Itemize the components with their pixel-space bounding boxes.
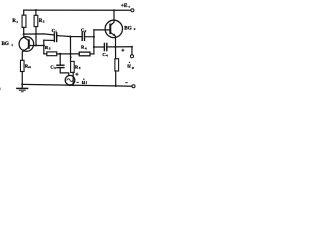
wire Rb bottom lead to base lead bbox=[35, 27, 37, 46]
wire emitter BG1 down bbox=[21, 52, 23, 60]
svg-text:+E: +E bbox=[121, 3, 128, 9]
capacitor C4 bbox=[104, 43, 106, 50]
node emitter-output bbox=[114, 46, 116, 48]
wire node B vertical to R5 bbox=[70, 37, 72, 62]
svg-text:2: 2 bbox=[85, 29, 87, 33]
wire base lead BG2 bbox=[94, 29, 110, 31]
circuit schematic 138x94 bbox=[0, 0, 138, 94]
source AC ui bbox=[65, 75, 75, 85]
emitter BG2 with arrow bbox=[110, 32, 115, 35]
wire C3 top lead bbox=[59, 54, 61, 65]
svg-text:BG: BG bbox=[2, 41, 9, 47]
node N1 bbox=[59, 53, 61, 55]
label ui source minus bbox=[76, 81, 78, 83]
svg-text:u: u bbox=[127, 63, 131, 70]
node cap C4 junction bbox=[93, 46, 95, 48]
svg-text:o: o bbox=[132, 65, 134, 70]
wire emitter BG2 down bbox=[115, 36, 117, 47]
wire Re1 bottom bbox=[21, 72, 23, 85]
node rail Rb bbox=[35, 9, 37, 11]
svg-text:1: 1 bbox=[16, 20, 18, 24]
wire node M vertical bbox=[93, 30, 95, 54]
wire top rail +Ec bbox=[24, 9, 131, 11]
wire Rb top lead bbox=[35, 10, 37, 15]
resistor Re2 bbox=[115, 59, 119, 71]
wire R1 bottom bbox=[23, 27, 25, 34]
transistor BG1 bbox=[19, 37, 34, 52]
wire C2 to node M bbox=[85, 36, 94, 38]
svg-text:4: 4 bbox=[85, 46, 87, 50]
wire R3 to R4 bbox=[57, 53, 79, 55]
wire Re2 bottom bbox=[115, 71, 117, 86]
node Re2 ground bbox=[115, 85, 117, 87]
resistor R5 bbox=[71, 61, 75, 72]
resistor R2 (Rb) bbox=[34, 15, 38, 26]
svg-text:2: 2 bbox=[43, 20, 45, 24]
node M bbox=[93, 36, 95, 38]
node rail BG2 collector bbox=[113, 9, 115, 11]
wire output top bbox=[116, 47, 132, 55]
node blob below cross bbox=[70, 57, 72, 59]
node Rb base bbox=[35, 45, 37, 47]
wire C3 to source bbox=[60, 68, 68, 76]
wire C1 to C2 bbox=[57, 36, 82, 37]
label output minus bbox=[125, 82, 128, 84]
resistor Re1 bbox=[20, 60, 24, 71]
capacitor C1 bbox=[54, 33, 56, 42]
wire C4 to emitter bbox=[107, 46, 116, 48]
terminal output minus bbox=[132, 85, 135, 88]
node ground left bbox=[21, 83, 23, 85]
node B on C-wire bbox=[69, 36, 71, 38]
collector BG2 bbox=[110, 10, 114, 25]
label ui source plus bbox=[75, 73, 78, 76]
svg-text:3: 3 bbox=[49, 47, 51, 51]
capacitor C2 bbox=[82, 32, 84, 40]
emitter BG1 with arrow bbox=[23, 47, 29, 51]
wire base stub to C1 lower bbox=[44, 39, 54, 41]
svg-text:3: 3 bbox=[54, 66, 56, 70]
wire source bottom bbox=[69, 84, 71, 86]
terminal output plus bbox=[130, 55, 133, 58]
ground bbox=[21, 84, 23, 88]
wire base vertical bbox=[44, 40, 47, 54]
terminal +Ec bbox=[131, 9, 134, 12]
label output plus bbox=[121, 49, 124, 52]
svg-text:e1: e1 bbox=[28, 65, 31, 69]
resistor R3 bbox=[47, 52, 57, 56]
wire R5 bottom lead bbox=[72, 72, 74, 85]
resistor R1 bbox=[22, 15, 26, 27]
edge speck bbox=[0, 88, 2, 90]
svg-text:BG: BG bbox=[124, 26, 131, 32]
resistor R4 bbox=[79, 52, 90, 56]
wire R4 right to M vertical bbox=[90, 53, 94, 55]
node collector BG1 bbox=[23, 33, 25, 35]
capacitor C3 bbox=[57, 65, 64, 67]
svg-text:c: c bbox=[129, 4, 131, 8]
svg-text:i: i bbox=[86, 80, 88, 85]
node R5 ground bbox=[72, 84, 74, 86]
wire base lead BG1 bbox=[29, 45, 44, 47]
svg-text:4: 4 bbox=[106, 54, 108, 58]
collector BG1 bbox=[24, 34, 29, 41]
wire collector coupling to C1 bbox=[24, 34, 54, 35]
wire bottom rail bbox=[22, 84, 132, 86]
node source ground bbox=[69, 84, 71, 86]
transistor BG2 bbox=[105, 20, 122, 37]
resistor R1 top lead wire bbox=[23, 10, 25, 15]
node B cross R-wire bbox=[70, 53, 72, 55]
wire M to C4 bbox=[94, 46, 104, 48]
svg-text:2: 2 bbox=[134, 27, 136, 31]
svg-text:1: 1 bbox=[11, 43, 13, 47]
node base BG1 bbox=[43, 44, 45, 46]
svg-text:5: 5 bbox=[79, 66, 81, 70]
wire emitter to Re2 bbox=[115, 47, 117, 59]
